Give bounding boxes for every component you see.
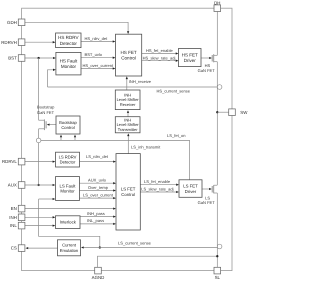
svg-text:LS Fault: LS Fault xyxy=(59,183,76,188)
svg-text:INH_receive: INH_receive xyxy=(129,79,152,84)
block INH Level-Shifter Receiver xyxy=(115,90,140,110)
svg-text:Detector: Detector xyxy=(60,160,76,165)
wire BST to HS Fault Monitor xyxy=(25,57,54,59)
junction SW node xyxy=(216,111,218,113)
wire Bootstrap Control to gate xyxy=(49,124,56,126)
svg-text:HS_current_sense: HS_current_sense xyxy=(157,89,191,94)
signal INH_pass xyxy=(80,216,114,218)
block Bootstrap Control xyxy=(56,116,80,134)
signal LS_fet_enable xyxy=(140,184,176,186)
signal LS_slew_rate_adj xyxy=(140,191,176,193)
block LS Fault Monitor xyxy=(56,177,80,201)
block HS FET Control xyxy=(116,34,142,76)
wire bootstrap to AUX xyxy=(38,143,40,185)
signal INL_pass xyxy=(80,223,114,225)
block HS RDRV Detector xyxy=(56,33,81,48)
svg-text:BST: BST xyxy=(8,56,17,61)
wire AUX to LS Fault Monitor xyxy=(25,184,53,186)
wire LS FET Driver output to gate xyxy=(202,188,209,190)
block LS FET Control xyxy=(116,154,140,230)
svg-text:INH: INH xyxy=(9,215,17,220)
wire BST to Bootstrap FET drain xyxy=(38,58,40,120)
wire HS FET source to LS FET drain xyxy=(216,62,218,185)
wire GDH to HS FET Control top xyxy=(25,22,128,32)
pin SW xyxy=(229,109,236,116)
signal HS_over_current xyxy=(81,68,113,70)
signal LS_over_current xyxy=(80,197,114,199)
svg-text:Interlock: Interlock xyxy=(60,220,77,225)
svg-text:AGND: AGND xyxy=(92,275,105,280)
wire LS current sense to LS Fault Monitor xyxy=(39,198,54,200)
block LS FET Driver xyxy=(179,180,202,198)
wire Current Emulation to CS xyxy=(28,247,57,249)
wire HS FET Driver output to gate xyxy=(201,57,209,59)
svg-text:AUX_uvlo: AUX_uvlo xyxy=(88,178,107,183)
signal AUX_uvlo xyxy=(80,182,114,184)
svg-text:AUX: AUX xyxy=(8,183,17,188)
svg-text:Control: Control xyxy=(121,56,136,61)
wire sense to Bootstrap Control right arrow xyxy=(74,137,76,141)
svg-text:GaN FET: GaN FET xyxy=(198,200,216,205)
svg-text:Receiver: Receiver xyxy=(120,102,136,107)
block LS RDRV Detector xyxy=(56,152,80,167)
pin AGND xyxy=(95,267,102,274)
wire INH to Interlock xyxy=(25,216,53,218)
junction AGND-power xyxy=(216,255,218,257)
pin RDRVH xyxy=(18,39,25,46)
svg-text:SW: SW xyxy=(240,110,248,115)
signal LS_inh_transmit xyxy=(127,135,129,153)
svg-text:CS: CS xyxy=(11,246,17,251)
signal LS_rdrv_det xyxy=(80,161,114,163)
svg-text:Control: Control xyxy=(61,125,74,130)
block INH Level-Shifter Transmitter xyxy=(115,117,140,133)
svg-text:Bootstrap: Bootstrap xyxy=(37,104,55,109)
svg-text:Over_temp: Over_temp xyxy=(88,185,109,190)
svg-text:DH: DH xyxy=(214,0,220,5)
wire DH to HS FET drain xyxy=(216,11,218,55)
pin RDRVL xyxy=(18,158,25,165)
pin BST xyxy=(18,55,25,62)
HS current sense tap circle xyxy=(217,85,222,90)
svg-text:LS_slew_rate_adj: LS_slew_rate_adj xyxy=(141,186,173,191)
svg-text:BST_uvlo: BST_uvlo xyxy=(85,52,103,57)
svg-text:HS_over_current: HS_over_current xyxy=(83,63,114,68)
svg-text:LS RDRV: LS RDRV xyxy=(59,154,77,159)
signal HS_slew_rate_adj xyxy=(142,60,177,62)
svg-text:EN: EN xyxy=(11,206,17,211)
wire INL to Interlock xyxy=(25,225,53,227)
signal HS_fet_enable xyxy=(142,53,177,55)
IC boundary xyxy=(22,8,232,270)
wire EN to LS FET Control xyxy=(25,208,114,210)
pin DH xyxy=(214,5,221,12)
svg-text:Control: Control xyxy=(121,192,135,197)
svg-text:HS_slew_rate_adj: HS_slew_rate_adj xyxy=(143,55,176,60)
signal BST_uvlo xyxy=(81,57,113,59)
transistor LS GaN FET xyxy=(211,186,213,193)
block HS FET Driver xyxy=(179,49,202,67)
signal LS_fet_on xyxy=(41,140,190,179)
svg-text:Transmitter: Transmitter xyxy=(118,127,138,132)
svg-text:Detector: Detector xyxy=(60,41,78,46)
wire LS_fet_on to Bootstrap Control left arrow xyxy=(60,137,62,141)
transistor Bootstrap GaN FET xyxy=(39,119,45,121)
bootstrap sense circle xyxy=(36,138,41,143)
pin INL xyxy=(18,222,25,229)
pin CS xyxy=(18,245,25,252)
transistor HS GaN FET xyxy=(211,55,213,62)
svg-text:HS RDRV: HS RDRV xyxy=(58,35,79,40)
pin INH xyxy=(18,214,25,221)
signal INH_receive xyxy=(126,78,128,90)
svg-text:RDRVL: RDRVL xyxy=(2,159,17,164)
svg-text:HS FET: HS FET xyxy=(121,50,137,55)
svg-text:INL_pass: INL_pass xyxy=(87,218,104,223)
svg-text:INL: INL xyxy=(10,223,17,228)
svg-text:LS_rdrv_det: LS_rdrv_det xyxy=(86,154,109,159)
junction sense tap xyxy=(99,246,101,248)
svg-text:SL: SL xyxy=(215,275,221,280)
wire INH Transmitter to Receiver xyxy=(127,112,129,117)
svg-text:GaN FET: GaN FET xyxy=(37,110,55,115)
wire LS FET source to SL xyxy=(216,193,218,267)
svg-text:LS_inh_transmit: LS_inh_transmit xyxy=(131,144,161,149)
wire SW stub xyxy=(217,111,229,113)
wire RDRVL to LS RDRV Detector xyxy=(25,161,53,163)
junction BST-bootstrap xyxy=(37,57,39,59)
block HS Fault Monitor xyxy=(56,52,81,75)
svg-text:Monitor: Monitor xyxy=(60,189,75,194)
svg-text:LS_fet_enable: LS_fet_enable xyxy=(144,179,171,184)
signal HS_rdrv_det xyxy=(81,41,113,43)
wire HS_current_sense xyxy=(48,86,218,88)
block Interlock xyxy=(56,216,81,229)
svg-text:HS_fet_enable: HS_fet_enable xyxy=(146,48,174,53)
signal Over_temp xyxy=(80,190,114,192)
svg-text:GDH: GDH xyxy=(7,20,17,25)
svg-text:LS_fet_on: LS_fet_on xyxy=(167,133,185,138)
LS current sense tap circle xyxy=(217,244,222,249)
svg-text:HS FET: HS FET xyxy=(182,52,198,57)
svg-text:LS_over_current: LS_over_current xyxy=(83,192,114,197)
signal LS_current_sense xyxy=(84,247,218,249)
svg-text:RDRVH: RDRVH xyxy=(1,40,17,45)
svg-text:LS_current_sense: LS_current_sense xyxy=(118,240,152,245)
wire sense tap vertical xyxy=(39,199,100,248)
wire AGND riser xyxy=(98,256,218,267)
pin EN xyxy=(18,205,25,212)
svg-text:HS_rdrv_det: HS_rdrv_det xyxy=(85,36,109,41)
block Current Emulation xyxy=(58,240,81,256)
pin SL xyxy=(214,267,221,274)
svg-text:LS FET: LS FET xyxy=(121,187,136,192)
wire HS current sense to HS Fault Monitor xyxy=(48,70,54,87)
wire RDRVH to HS RDRV Detector xyxy=(25,41,53,43)
svg-text:Current: Current xyxy=(62,243,77,248)
junction bootstrap-AUX xyxy=(37,184,39,186)
svg-text:Bootstrap: Bootstrap xyxy=(59,120,77,125)
wire Bootstrap FET source down xyxy=(38,129,40,138)
svg-text:HS Fault: HS Fault xyxy=(60,58,78,63)
svg-text:Driver: Driver xyxy=(184,58,197,63)
pin AUX xyxy=(18,182,25,189)
svg-text:GaN FET: GaN FET xyxy=(198,68,216,73)
pin GDH xyxy=(18,19,25,26)
svg-text:Driver: Driver xyxy=(185,189,197,194)
svg-text:INH_pass: INH_pass xyxy=(87,211,105,216)
svg-text:Monitor: Monitor xyxy=(61,64,77,69)
svg-text:LS FET: LS FET xyxy=(183,183,198,188)
svg-text:Emulation: Emulation xyxy=(60,248,79,253)
